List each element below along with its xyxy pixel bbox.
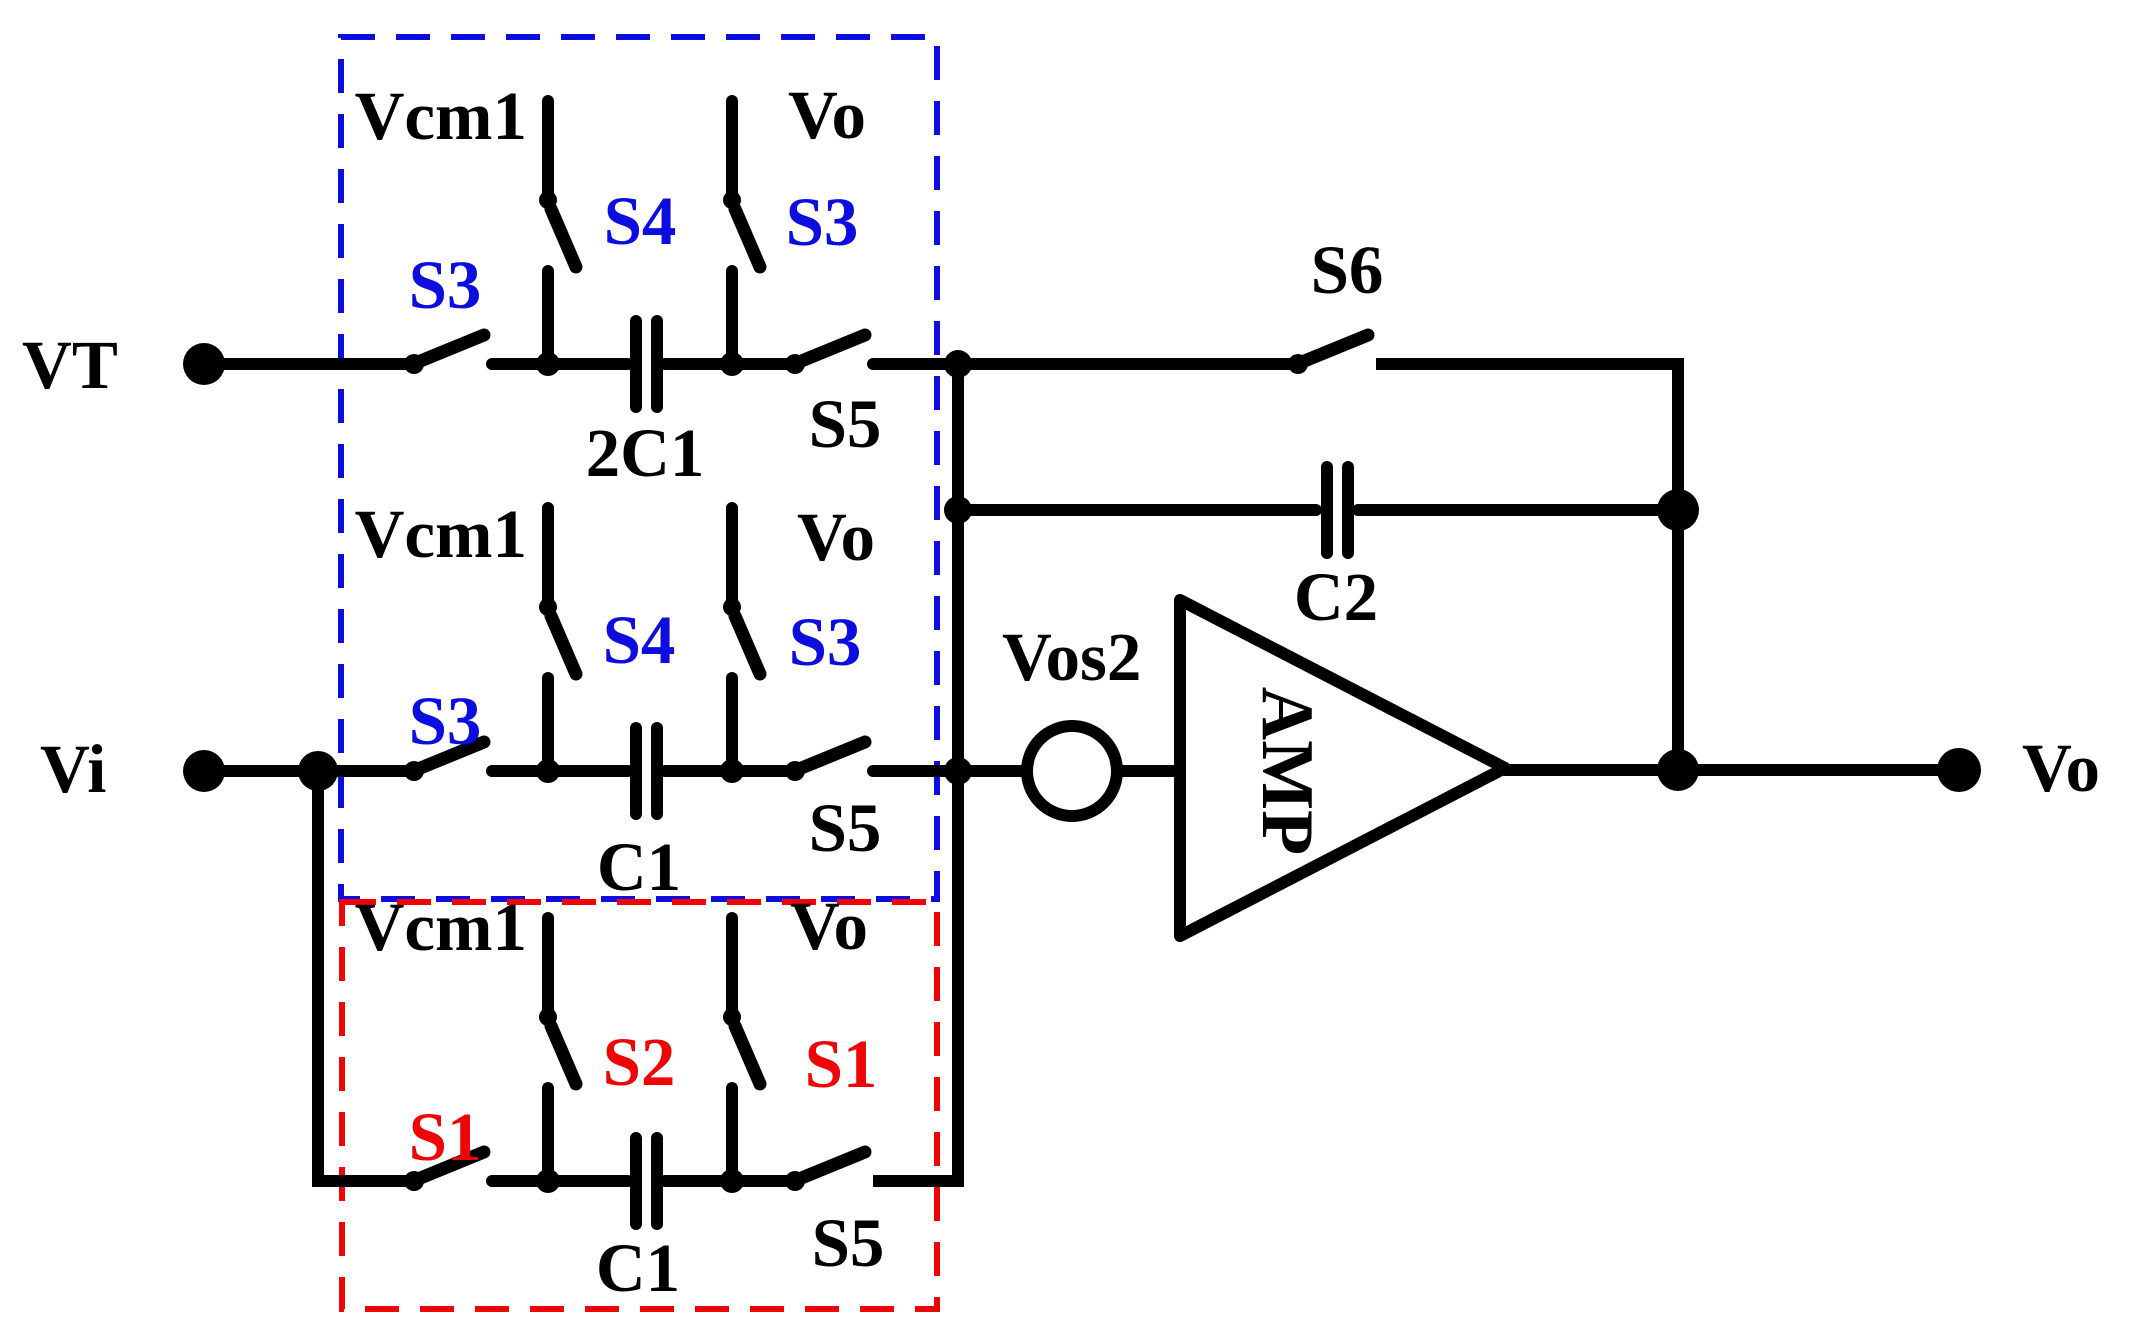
svg-text:Vos2: Vos2	[1002, 619, 1141, 695]
node B2 (C1 right plate node)	[720, 759, 744, 783]
svg-text:S2: S2	[603, 1024, 676, 1100]
wire node B3 to switch S5	[732, 1175, 795, 1187]
node feedback (C2 right)	[1657, 489, 1699, 531]
capacitor C2	[1327, 467, 1348, 553]
wire S5 to summing node	[873, 358, 958, 370]
svg-text:S1: S1	[409, 1099, 482, 1175]
op-amp AMP	[1180, 600, 1505, 936]
switch S1 (row 3, to Vo)	[723, 888, 877, 1181]
svg-text:S3: S3	[409, 247, 482, 323]
junction node trunk / C2 branch	[944, 496, 972, 524]
wire S6 to feedback corner and down to C2 node	[1376, 364, 1678, 510]
wire trunk to switch S6	[958, 358, 1298, 370]
switch S5 (row 1, output side)	[785, 335, 881, 462]
svg-text:S5: S5	[812, 1205, 885, 1281]
wire node B2 to switch S5	[732, 765, 795, 777]
wire Vi to node Vi	[204, 765, 318, 777]
node output (feedback tap)	[1657, 749, 1699, 791]
svg-text:Vo: Vo	[790, 888, 868, 964]
wire trunk vertical (rows 1-3 common node)	[952, 364, 964, 1181]
svg-text:C1: C1	[596, 1230, 680, 1306]
switch S4 (row 1, to Vcm1)	[355, 78, 677, 364]
svg-text:Vi: Vi	[40, 731, 106, 807]
junction node row 1 / trunk	[944, 350, 972, 378]
wire capacitor 2C1 to node B1	[665, 358, 732, 370]
svg-text:Vo: Vo	[2022, 730, 2100, 806]
wire node A1 to capacitor 2C1	[548, 358, 628, 370]
wire feedback node down to output node	[1672, 510, 1684, 770]
svg-text:Vcm1: Vcm1	[355, 889, 527, 965]
wire Vi node down to row 3	[312, 771, 324, 1175]
switch S3 (row 2, input side)	[404, 683, 484, 781]
blue dashed box (hold phase switches S3/S4 section)	[341, 37, 937, 899]
svg-text:Vo: Vo	[788, 77, 866, 153]
svg-text:C1: C1	[597, 829, 681, 905]
switch S3 (row 1, to Vo)	[723, 77, 866, 364]
wire node B1 to switch S5	[732, 358, 795, 370]
wire Vos2 to amplifier input	[1117, 765, 1180, 777]
offset voltage source Vos2	[1002, 619, 1141, 816]
svg-text:S1: S1	[805, 1026, 878, 1102]
wire node A2 to capacitor C1	[548, 765, 628, 777]
svg-text:S4: S4	[603, 602, 676, 678]
wire S5 to summing node row 2	[873, 765, 958, 777]
node Vi (branch split)	[298, 751, 338, 791]
wire node A3 to capacitor C1	[548, 1175, 628, 1187]
output terminal Vo	[1937, 730, 2100, 806]
switch S5 (row 3, output side)	[785, 1152, 884, 1281]
capacitor 2C1	[636, 321, 657, 407]
node A1 (2C1 left plate node)	[536, 352, 560, 376]
red dashed box (sample phase switches S1/S2 section)	[342, 902, 937, 1309]
switch S4 (row 2, to Vcm1)	[355, 496, 676, 771]
svg-text:S6: S6	[1311, 232, 1384, 308]
wire S3 to node A2	[492, 765, 548, 777]
wire capacitor C2 to feedback node	[1358, 504, 1678, 516]
svg-text:VT: VT	[22, 327, 118, 403]
switch S1 (row 3, input side)	[404, 1099, 484, 1191]
wire trunk to Vos2 source	[958, 765, 1029, 777]
input terminal Vi	[40, 731, 225, 807]
svg-text:AMP: AMP	[1246, 687, 1328, 856]
wire capacitor C1 to node B2	[665, 765, 732, 777]
wire trunk to capacitor C2	[958, 504, 1316, 516]
wire VT to switch S3	[204, 358, 414, 370]
svg-text:C2: C2	[1294, 559, 1378, 635]
wire capacitor C1 to node B3	[665, 1175, 732, 1187]
capacitor C1 (row 2)	[636, 728, 657, 814]
svg-text:S4: S4	[604, 183, 677, 259]
node B3 (C1 right plate node)	[720, 1169, 744, 1193]
node B1 (2C1 right plate node)	[720, 352, 744, 376]
capacitor C1 (row 3)	[636, 1138, 657, 1224]
switch S3 (row 1, input side)	[404, 247, 484, 374]
switch S6 (feedback reset)	[1288, 232, 1383, 374]
switch S5 (row 2, output side)	[785, 742, 881, 866]
wire node Vi to switch S3	[318, 765, 414, 777]
svg-text:S3: S3	[409, 683, 482, 759]
switch S3 (row 2, to Vo)	[723, 499, 875, 771]
wire row 3 left horizontal	[312, 1175, 414, 1187]
svg-text:Vo: Vo	[797, 499, 875, 575]
node A3 (C1 left plate node)	[536, 1169, 560, 1193]
svg-text:S5: S5	[809, 790, 882, 866]
svg-text:S3: S3	[789, 604, 862, 680]
svg-text:S5: S5	[809, 386, 882, 462]
wire S5 to trunk corner row 3	[873, 1175, 964, 1187]
wire amplifier output to terminal Vo	[1505, 764, 1959, 776]
svg-text:2C1: 2C1	[586, 415, 705, 491]
wire S1 to node A3	[492, 1175, 548, 1187]
switch S2 (row 3, to Vcm1)	[355, 889, 676, 1181]
svg-text:S3: S3	[786, 184, 859, 260]
input terminal VT	[22, 327, 225, 403]
node A2 (C1 left plate node)	[536, 759, 560, 783]
wire S3 to node A1	[492, 358, 548, 370]
svg-text:Vcm1: Vcm1	[355, 78, 527, 154]
svg-text:Vcm1: Vcm1	[355, 496, 527, 572]
junction node row 2 / trunk (amp input)	[944, 757, 972, 785]
